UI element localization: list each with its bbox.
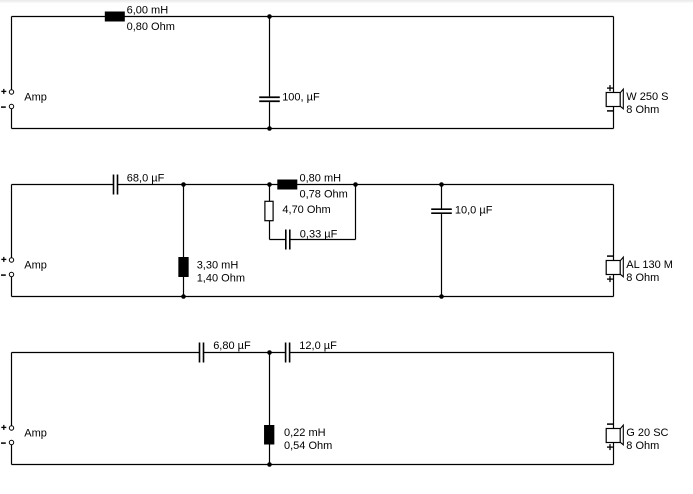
wire shunt cap branch upper circuit 2: [441, 185, 443, 210]
wire right wire circuit 3 upper: [613, 353, 615, 429]
terminal minus terminal of amp source circuit 2: [9, 272, 13, 276]
minus mark of amp source circuit 2: [1, 274, 6, 276]
svg-text:8 Ohm: 8 Ohm: [626, 272, 659, 284]
terminal plus terminal of amp source circuit 3: [9, 426, 13, 430]
value label 10,0 µF: [455, 204, 493, 216]
value label 68,0 µF: [127, 172, 165, 184]
wire top rail circuit 3 between caps: [204, 352, 286, 354]
capacitor 0.33 uF (series in RC branch): [286, 230, 290, 250]
value label 3,30 mH: [197, 259, 239, 271]
capacitor 100 uF (shunt): [259, 97, 280, 101]
svg-text:6,80 µF: 6,80 µF: [213, 340, 251, 352]
label W 250 S of W 250 S woofer: [626, 91, 668, 103]
wire top rail circuit 2 segment left of 68uF cap: [12, 184, 114, 186]
inductor 6.00 mH 0.80 Ohm (series, woofer low-pass): [105, 12, 125, 22]
plus terminal mark of W 250 S woofer: [607, 85, 613, 91]
value label 0,22 mH: [284, 427, 326, 439]
svg-text:100, µF: 100, µF: [282, 91, 320, 103]
wire RC branch wire down to resistor: [269, 185, 271, 202]
minus mark of amp source circuit 1: [1, 106, 6, 108]
capacitor 12.0 uF (series): [286, 343, 290, 363]
wire top rail circuit 3 right segment: [290, 352, 614, 354]
terminal minus terminal of amp source circuit 3: [9, 440, 13, 444]
inductor 0.80 mH 0.78 Ohm (series): [277, 180, 297, 190]
value label 0,80 mH: [300, 172, 342, 184]
svg-text:4,70 Ohm: 4,70 Ohm: [282, 204, 330, 216]
wire right wire circuit 1 upper: [613, 17, 615, 93]
value label 0,78 Ohm: [300, 189, 348, 201]
capacitor 6.80 uF (series): [200, 343, 204, 363]
label 8 Ohm of G 20 SC tweeter: [626, 440, 659, 452]
value label 0,54 Ohm: [284, 440, 332, 452]
junction node parallel group input: [267, 182, 272, 187]
label 8 Ohm of AL 130 M midrange: [626, 272, 659, 284]
svg-text:0,80 Ohm: 0,80 Ohm: [127, 21, 175, 33]
wire shunt cap branch lower circuit 2: [441, 214, 443, 296]
wire RC branch wire left of 0.33uF cap: [270, 239, 286, 241]
svg-text:0,22 mH: 0,22 mH: [284, 427, 326, 439]
value label 1,40 Ohm: [197, 272, 245, 284]
wire capacitor branch upper circuit 1: [269, 17, 271, 97]
value label 6,00 mH: [127, 4, 169, 16]
wire shunt inductor branch lower circuit 3: [269, 445, 271, 465]
wire top rail circuit 3 segment left of 6.8uF cap: [12, 352, 200, 354]
value label 0,33 µF: [300, 228, 338, 240]
wire bottom rail circuit 2: [12, 296, 614, 298]
wire capacitor branch lower circuit 1: [269, 102, 271, 128]
svg-text:12,0 µF: 12,0 µF: [299, 340, 337, 352]
junction node shunt cap bottom circuit 2: [439, 294, 444, 299]
speaker AL 130 M midrange: [606, 257, 623, 277]
wire shunt inductor branch upper circuit 2: [183, 185, 185, 258]
wire RC branch wire up to rail: [355, 185, 357, 240]
svg-text:1,40 Ohm: 1,40 Ohm: [197, 272, 245, 284]
label Amp of amp source circuit 1: [24, 91, 47, 103]
junction node shunt inductor bottom circuit 2: [181, 294, 186, 299]
value label 6,80 µF: [213, 340, 251, 352]
svg-text:68,0 µF: 68,0 µF: [127, 172, 165, 184]
wire left wire circuit 2 upper: [11, 185, 13, 261]
minus mark of amp source circuit 3: [1, 442, 6, 444]
label Amp of amp source circuit 2: [24, 259, 47, 271]
svg-text:Amp: Amp: [24, 91, 47, 103]
svg-text:10,0 µF: 10,0 µF: [455, 204, 493, 216]
svg-text:0,33 µF: 0,33 µF: [300, 228, 338, 240]
minus terminal mark of W 250 S woofer: [607, 110, 613, 112]
terminal plus terminal of amp source circuit 2: [9, 258, 13, 262]
junction node shunt inductor top circuit 2: [181, 182, 186, 187]
capacitor 10.0 uF (shunt): [431, 209, 452, 213]
speaker W 250 S woofer: [606, 89, 623, 109]
value label 4,70 Ohm: [282, 204, 330, 216]
plus mark of amp source circuit 1: [1, 89, 6, 94]
minus terminal mark of G 20 SC tweeter: [607, 423, 613, 425]
wire shunt inductor branch upper circuit 3: [269, 353, 271, 426]
svg-text:AL 130 M: AL 130 M: [626, 259, 673, 271]
svg-text:8 Ohm: 8 Ohm: [626, 440, 659, 452]
label G 20 SC of G 20 SC tweeter: [626, 427, 668, 439]
wire left wire circuit 3 upper: [11, 353, 13, 429]
svg-text:G 20 SC: G 20 SC: [626, 427, 668, 439]
svg-text:8 Ohm: 8 Ohm: [626, 104, 659, 116]
junction node woofer cap bottom: [267, 126, 272, 131]
label Amp of amp source circuit 3: [24, 427, 47, 439]
value label 0,80 Ohm: [127, 21, 175, 33]
junction node shunt cap top circuit 2: [439, 182, 444, 187]
wire right wire circuit 2 lower: [613, 275, 615, 297]
plus mark of amp source circuit 3: [1, 425, 6, 430]
minus terminal mark of AL 130 M midrange: [607, 255, 613, 257]
wire left wire circuit 1 lower: [11, 107, 13, 129]
wire bottom rail circuit 1: [12, 128, 614, 130]
wire right wire circuit 3 lower: [613, 443, 615, 465]
plus mark of amp source circuit 2: [1, 257, 6, 262]
value label 100, µF: [282, 91, 320, 103]
wire left wire circuit 2 lower: [11, 275, 13, 297]
svg-text:Amp: Amp: [24, 427, 47, 439]
junction node between series caps circuit 3: [267, 350, 272, 355]
wire shunt inductor branch lower circuit 2: [183, 277, 185, 297]
wire top rail circuit 1: [12, 16, 614, 18]
wire left wire circuit 1 upper: [11, 17, 13, 93]
label AL 130 M of AL 130 M midrange: [626, 259, 673, 271]
junction node shunt inductor bottom circuit 3: [267, 462, 272, 467]
wire right wire circuit 1 lower: [613, 107, 615, 129]
junction node parallel group output: [353, 182, 358, 187]
svg-text:6,00 mH: 6,00 mH: [127, 4, 169, 16]
svg-text:0,80 mH: 0,80 mH: [300, 172, 342, 184]
wire right wire circuit 2 upper: [613, 185, 615, 261]
svg-text:0,54 Ohm: 0,54 Ohm: [284, 440, 332, 452]
value label 12,0 µF: [299, 340, 337, 352]
svg-text:3,30 mH: 3,30 mH: [197, 259, 239, 271]
terminal plus terminal of amp source circuit 1: [9, 90, 13, 94]
wire RC branch wire below resistor: [269, 221, 271, 240]
resistor 4.70 Ohm: [265, 201, 273, 220]
wire bottom rail circuit 3: [12, 464, 614, 466]
svg-text:W 250 S: W 250 S: [626, 91, 668, 103]
terminal minus terminal of amp source circuit 1: [9, 104, 13, 108]
plus terminal mark of AL 130 M midrange: [607, 276, 613, 282]
junction node woofer cap top: [267, 14, 272, 19]
wire RC branch wire right of 0.33uF cap: [290, 239, 356, 241]
plus terminal mark of G 20 SC tweeter: [607, 444, 613, 450]
label 8 Ohm of W 250 S woofer: [626, 104, 659, 116]
capacitor 68.0 uF (series): [114, 175, 118, 195]
svg-text:0,78 Ohm: 0,78 Ohm: [300, 189, 348, 201]
inductor 3.30 mH 1.40 Ohm (shunt): [178, 257, 188, 277]
inductor 0.22 mH 0.54 Ohm (shunt): [264, 425, 274, 445]
svg-text:Amp: Amp: [24, 259, 47, 271]
wire top rail circuit 2 segment right of 68uF cap: [118, 184, 614, 186]
speaker G 20 SC tweeter: [606, 425, 623, 445]
wire left wire circuit 3 lower: [11, 443, 13, 465]
